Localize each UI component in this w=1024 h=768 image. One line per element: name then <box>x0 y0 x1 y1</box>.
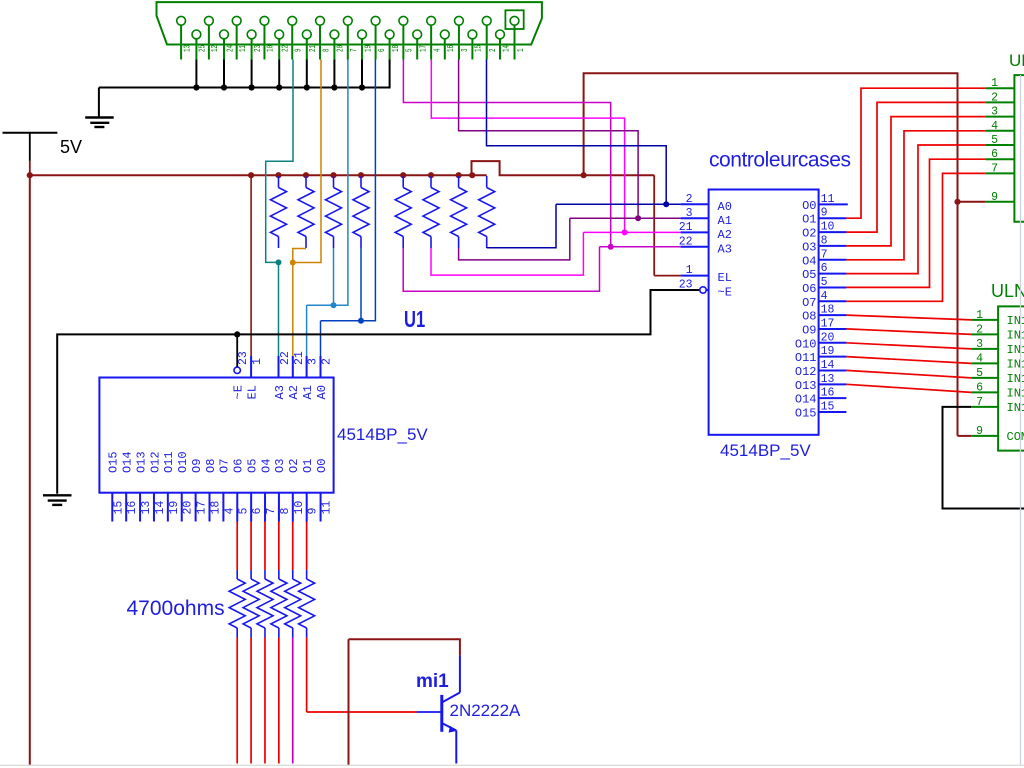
svg-text:5: 5 <box>991 134 998 147</box>
svg-text:18: 18 <box>209 501 222 515</box>
svg-text:10: 10 <box>267 45 276 52</box>
svg-text:A0: A0 <box>315 385 329 399</box>
wire O5 to U2 pin 5 (red) <box>846 145 985 274</box>
svg-text:O12: O12 <box>148 451 162 473</box>
svg-text:IN1: IN1 <box>1007 401 1024 415</box>
svg-text:2: 2 <box>976 323 983 336</box>
svg-text:15: 15 <box>821 401 835 414</box>
svg-text:23: 23 <box>254 45 263 52</box>
svg-text:6: 6 <box>821 262 828 275</box>
svg-text:3: 3 <box>991 106 998 119</box>
svg-text:7: 7 <box>976 396 983 409</box>
resistor R2 4700ohms pullup <box>298 176 314 248</box>
controleurcases pin 13 (O13) <box>795 373 847 393</box>
junction navy at A0c <box>663 201 669 207</box>
junction on ground bus at pin 24 <box>221 84 227 90</box>
wire pin 25 to ground bus <box>195 60 197 88</box>
svg-text:COM: COM <box>1007 430 1024 444</box>
svg-text:O9: O9 <box>802 323 816 337</box>
svg-text:O6: O6 <box>802 282 816 296</box>
wire ~E net black <box>57 290 700 494</box>
U1 bottom pin 19 (O11) <box>162 451 181 521</box>
svg-text:O14: O14 <box>120 451 134 473</box>
svg-text:16: 16 <box>447 45 456 52</box>
svg-text:EL: EL <box>718 271 732 285</box>
resistor R10 4700ohms output <box>243 522 259 764</box>
junction 5V bus x=403.2 <box>400 172 406 178</box>
wire net pin6-A0 (medium blue) <box>321 60 376 357</box>
junction 5V bus x=306.0 <box>303 172 309 178</box>
connector pin 4 (top row) <box>427 16 443 59</box>
connector pin 15 (bottom row) <box>468 30 484 59</box>
connector pin 6 (top row) <box>371 16 387 59</box>
wire pin 23 to ground bus <box>251 60 253 88</box>
svg-text:O5: O5 <box>245 459 259 473</box>
svg-text:6: 6 <box>251 508 264 515</box>
U1 bottom pin 9 (O1) <box>301 459 320 522</box>
svg-text:3: 3 <box>307 358 320 365</box>
wire 5V top run <box>584 73 958 436</box>
svg-text:2: 2 <box>489 48 498 52</box>
U1 top pin 2 (A0) labels <box>315 358 334 400</box>
junction orange at A2 drop <box>290 260 296 266</box>
svg-text:18: 18 <box>392 45 401 52</box>
U1 bottom pin 20 (O10) <box>176 451 195 521</box>
U1 top pin 22 (A3) labels <box>273 351 292 399</box>
wire net pin4-A2c (magenta) <box>431 60 624 233</box>
controleurcases pin 1 (EL) <box>681 264 732 285</box>
connector pin 2 (top row) <box>482 16 498 59</box>
connector pin 7 (top row) <box>343 16 359 59</box>
connector pin 20 (bottom row) <box>330 30 346 59</box>
svg-text:O3: O3 <box>273 459 287 473</box>
wire net pin9-A3 (teal) <box>266 60 293 263</box>
svg-text:16: 16 <box>126 501 139 515</box>
connector pin 24 (bottom row) <box>220 30 236 59</box>
svg-text:7: 7 <box>991 162 998 175</box>
svg-text:controleurcases: controleurcases <box>709 149 851 172</box>
svg-text:9: 9 <box>295 48 304 52</box>
ground symbol (top) <box>85 118 114 128</box>
connector pin 21 (bottom row) <box>302 30 318 59</box>
U1 top pin 21 (A2) labels <box>287 351 306 399</box>
svg-text:4: 4 <box>821 290 828 303</box>
connector pin 12 (top row) <box>204 16 220 59</box>
connector pin 17 (bottom row) <box>413 30 429 59</box>
svg-text:14: 14 <box>821 359 835 372</box>
op U1 4514BP_5V body <box>99 378 333 493</box>
svg-text:3: 3 <box>976 338 983 351</box>
junction 5V at U2 pin9 <box>954 199 960 205</box>
junction on ground bus at pin 19 <box>359 84 365 90</box>
connector pin 1 (top row) <box>510 16 526 59</box>
U1 bottom pin 8 (O3) <box>273 459 292 522</box>
junction ~E at U1 <box>234 331 240 337</box>
svg-text:IN1: IN1 <box>1007 387 1024 401</box>
wire U3 pin7 black <box>943 407 1024 509</box>
controleurcases ~E inversion bubble <box>700 287 706 293</box>
svg-text:~E: ~E <box>718 286 732 300</box>
U1 ~E inversion bubble <box>234 367 240 373</box>
resistor R11 4700ohms output <box>257 522 273 764</box>
svg-text:A2: A2 <box>718 228 732 242</box>
wire O1 to U2 pin 1 (red) <box>846 88 985 218</box>
wire O6 to U2 pin 6 (red) <box>846 159 985 287</box>
svg-text:O4: O4 <box>259 459 273 473</box>
junction 5V bus x=333.5 <box>330 172 336 178</box>
stub A0 U1 <box>320 356 322 378</box>
controleurcases pin 14 (O12) <box>795 359 847 379</box>
controleurcases pin 6 (O5) <box>802 262 846 282</box>
svg-text:O15: O15 <box>795 407 817 421</box>
wire O12 to U3 pin 5 (red) <box>846 370 971 378</box>
U1 bottom pin 10 (O2) <box>287 459 306 522</box>
svg-text:O2: O2 <box>287 459 301 473</box>
svg-text:22: 22 <box>282 45 291 52</box>
U1 bottom pin 18 (O8) <box>204 459 223 522</box>
controleurcases pin 2 (A0) <box>681 193 732 214</box>
junction on ground bus at pin 23 <box>249 84 255 90</box>
connector pin 22 (bottom row) <box>275 30 291 59</box>
junction 5V bus x=472.2 <box>469 172 475 178</box>
controleurcases pin 16 (O14) <box>795 387 847 407</box>
svg-text:13: 13 <box>183 45 192 52</box>
wire 5V to EL of U1 <box>250 175 252 377</box>
U1 bottom pin 17 (O9) <box>190 459 209 522</box>
svg-text:10: 10 <box>293 501 306 515</box>
junction medblue at R4 <box>358 318 364 324</box>
svg-text:O7: O7 <box>218 459 232 473</box>
svg-text:5V: 5V <box>60 137 82 157</box>
wire net pin8-A2 (orange) <box>293 60 321 263</box>
controleurcases pin 22 (A3) <box>679 235 732 256</box>
junction purple at A1c <box>635 215 641 221</box>
op U3 ULN lower right <box>971 281 1024 451</box>
svg-text:5: 5 <box>406 48 415 52</box>
wire U1 ~E drop <box>236 334 238 367</box>
svg-text:O6: O6 <box>232 459 246 473</box>
svg-text:O11: O11 <box>795 351 817 365</box>
svg-text:6: 6 <box>976 381 983 394</box>
svg-text:A3: A3 <box>718 242 732 256</box>
controleurcases pin 21 (A2) <box>679 221 732 242</box>
svg-text:19: 19 <box>364 45 373 52</box>
svg-text:20: 20 <box>337 45 346 52</box>
wire pin 19 to ground bus <box>361 60 363 88</box>
junction cyan at R3 <box>331 302 337 308</box>
stub A2 U1 <box>292 356 294 378</box>
svg-text:11: 11 <box>821 193 835 206</box>
svg-text:UL: UL <box>1009 51 1024 70</box>
wire O4 to U2 pin 4 (red) <box>846 131 985 260</box>
controleurcases pin 23 (~E) <box>679 279 732 300</box>
resistor R7 4700ohms pullup <box>451 176 467 248</box>
connector pin 16 (bottom row) <box>440 30 456 59</box>
svg-text:1: 1 <box>517 48 526 52</box>
svg-text:6: 6 <box>378 48 387 52</box>
U1 bottom pin 5 (O6) <box>232 459 251 522</box>
ground symbol (left lower) <box>43 495 72 505</box>
resistor R12 4700ohms output <box>271 522 287 764</box>
U1 bottom pin 16 (O14) <box>120 451 139 521</box>
junction 5V rail <box>27 172 33 178</box>
stub A1 U1 <box>306 356 308 378</box>
svg-text:2N2222A: 2N2222A <box>450 701 522 720</box>
svg-text:2: 2 <box>321 358 334 365</box>
svg-text:O1: O1 <box>802 213 816 227</box>
svg-text:23: 23 <box>237 351 250 365</box>
wire 5V to U2 pin 9 <box>958 201 986 203</box>
U1 bottom pin 14 (O12) <box>148 451 167 521</box>
connector pin 3 (top row) <box>455 16 471 59</box>
wire base mi1 (red) <box>307 711 417 713</box>
U1 bottom pin 7 (O4) <box>259 459 278 522</box>
svg-text:10: 10 <box>821 221 835 234</box>
U1 bottom pin 11 (O0) <box>315 459 334 522</box>
svg-text:A3: A3 <box>273 385 287 399</box>
svg-text:13: 13 <box>140 501 153 515</box>
controleurcases pin 3 (A1) <box>681 207 732 228</box>
connector pin 14 (bottom row) <box>496 30 512 59</box>
svg-text:19: 19 <box>821 345 835 358</box>
svg-text:O2: O2 <box>802 227 816 241</box>
svg-text:2: 2 <box>686 193 693 206</box>
svg-text:O4: O4 <box>802 254 816 268</box>
connector pin 9 (top row) <box>288 16 304 59</box>
connector pin 10 (top row) <box>260 16 276 59</box>
junction 5V bus x=361.0 <box>358 172 364 178</box>
U1 bottom pin 6 (O5) <box>245 459 264 522</box>
svg-text:14: 14 <box>154 501 167 515</box>
wire O8 to U3 pin 1 (red) <box>846 315 971 320</box>
resistor R9 4700ohms output <box>229 522 245 764</box>
svg-text:20: 20 <box>182 501 195 515</box>
controleurcases pin 9 (O1) <box>802 207 846 227</box>
resistor R8 4700ohms pullup <box>479 176 495 248</box>
resistor R14 4700ohms output <box>299 522 315 713</box>
svg-text:7: 7 <box>350 48 359 52</box>
wire pin 22 to ground bus <box>278 60 280 88</box>
junction magenta at A2c <box>622 229 628 235</box>
controleurcases pin 17 (O9) <box>802 317 846 337</box>
resistor R1 4700ohms pullup <box>271 176 287 248</box>
connector pin 18 (bottom row) <box>385 30 401 59</box>
svg-text:4: 4 <box>434 48 443 52</box>
svg-text:15: 15 <box>475 45 484 52</box>
junction 5V bus x=458.6 <box>456 172 462 178</box>
wire 5V left vertical <box>29 175 31 765</box>
wire net pin3-A1c (purple) <box>459 60 638 219</box>
svg-text:1: 1 <box>251 358 264 365</box>
connector pin 13 (top row) <box>177 16 193 59</box>
connector pin 8 (top row) <box>316 16 332 59</box>
svg-text:11: 11 <box>239 45 248 52</box>
connector pin 25 (bottom row) <box>192 30 208 59</box>
svg-text:2: 2 <box>991 91 998 104</box>
svg-text:IN1: IN1 <box>1007 358 1024 372</box>
junction 5V bus riser <box>581 172 587 178</box>
connector pin 19 (bottom row) <box>358 30 374 59</box>
U1 top pin 3 (A1) labels <box>301 358 320 400</box>
junction on ground bus at pin 25 <box>193 84 199 90</box>
wire 5V to U3 pin 9 <box>958 435 972 437</box>
resistor R6 4700ohms pullup <box>423 176 439 248</box>
svg-text:14: 14 <box>502 45 511 52</box>
svg-text:O10: O10 <box>795 337 817 351</box>
junction 5V bus x=278.5 <box>275 172 281 178</box>
junction 5V bus x=251.1 <box>248 172 254 178</box>
5V horizontal bus <box>30 161 654 175</box>
svg-text:O7: O7 <box>802 296 816 310</box>
svg-text:17: 17 <box>420 45 429 52</box>
svg-text:5: 5 <box>821 276 828 289</box>
wire collector maroon <box>349 639 460 765</box>
svg-text:4: 4 <box>991 120 998 133</box>
svg-text:6: 6 <box>991 148 998 161</box>
svg-text:22: 22 <box>679 235 693 248</box>
wire 5V to EL of controleurcases <box>654 175 680 275</box>
svg-text:5: 5 <box>237 508 250 515</box>
controleurcases pin 7 (O4) <box>802 248 846 268</box>
svg-text:O13: O13 <box>795 379 817 393</box>
svg-text:9: 9 <box>976 425 983 438</box>
wire net pin5-A3c (dark magenta) <box>403 60 610 247</box>
svg-text:3: 3 <box>686 207 693 220</box>
junction teal at R1 <box>276 259 282 265</box>
svg-text:4514BP_5V: 4514BP_5V <box>720 441 811 460</box>
svg-text:20: 20 <box>821 331 835 344</box>
svg-text:O0: O0 <box>802 199 816 213</box>
U1 bottom pin 15 (O15) <box>107 451 126 521</box>
svg-text:23: 23 <box>679 279 693 292</box>
svg-text:O14: O14 <box>795 393 817 407</box>
junction mag3 at A3c <box>608 244 614 250</box>
svg-text:A2: A2 <box>287 385 301 399</box>
wire base stub (blue) <box>417 711 441 713</box>
svg-text:25: 25 <box>199 45 208 52</box>
connector pin 1 square marker <box>505 10 523 29</box>
U1 top pin 1 (EL) labels <box>245 358 264 400</box>
svg-text:9: 9 <box>991 191 998 204</box>
svg-text:12: 12 <box>211 45 220 52</box>
wire ground bus drop <box>98 88 100 118</box>
svg-text:O15: O15 <box>107 451 121 473</box>
svg-text:15: 15 <box>112 501 125 515</box>
svg-text:IN1: IN1 <box>1007 329 1024 343</box>
svg-text:O10: O10 <box>176 451 190 473</box>
svg-text:21: 21 <box>679 221 693 234</box>
wire O9 to U3 pin 2 (red) <box>846 329 971 335</box>
svg-text:4: 4 <box>976 352 983 365</box>
junction 5V bus x=431.0 <box>428 172 434 178</box>
controleurcases pin 19 (O11) <box>795 345 847 365</box>
svg-text:4: 4 <box>223 508 236 515</box>
connector pin 5 (top row) <box>399 16 415 59</box>
svg-text:O13: O13 <box>134 451 148 473</box>
svg-text:7: 7 <box>265 508 278 515</box>
svg-text:3: 3 <box>461 48 470 52</box>
svg-text:O12: O12 <box>795 365 817 379</box>
svg-text:1: 1 <box>686 264 693 277</box>
svg-text:A0: A0 <box>718 200 732 214</box>
U1 top pin 23 (~E) labels <box>232 351 251 399</box>
wire O7 to U2 pin 7 (red) <box>846 173 985 301</box>
svg-text:IN1: IN1 <box>1007 314 1024 328</box>
resistor R4 4700ohms pullup <box>353 176 369 248</box>
svg-text:11: 11 <box>321 501 334 515</box>
resistor R3 4700ohms pullup <box>326 176 342 248</box>
svg-text:EL: EL <box>245 385 259 399</box>
svg-text:8: 8 <box>322 48 331 52</box>
svg-text:1: 1 <box>976 309 983 322</box>
wire net pin2-A0c (navy) <box>487 60 667 205</box>
svg-text:O1: O1 <box>301 459 315 473</box>
svg-text:O0: O0 <box>315 459 329 473</box>
svg-text:O8: O8 <box>802 310 816 324</box>
svg-text:9: 9 <box>821 207 828 220</box>
canvas bottom edge <box>0 764 1024 766</box>
wire O3 to U2 pin 3 (red) <box>846 117 985 246</box>
wire O13 to U3 pin 6 (red) <box>846 384 971 392</box>
resistor R5 4700ohms pullup <box>395 176 411 248</box>
svg-text:5: 5 <box>976 367 983 380</box>
svg-text:O3: O3 <box>802 240 816 254</box>
transistor Q1 mi1 2N2222A <box>442 655 460 763</box>
svg-text:17: 17 <box>821 317 835 330</box>
svg-text:21: 21 <box>293 351 306 365</box>
wire pin 21 to ground bus <box>306 60 308 88</box>
wire O11 to U3 pin 4 (red) <box>846 357 971 364</box>
svg-text:O11: O11 <box>162 451 176 473</box>
U1 bottom pin 4 (O7) <box>218 459 237 522</box>
svg-text:U1: U1 <box>404 307 425 332</box>
svg-text:7: 7 <box>821 248 828 261</box>
svg-text:O5: O5 <box>802 268 816 282</box>
op U2b ULN upper right <box>986 51 1024 222</box>
svg-text:19: 19 <box>168 501 181 515</box>
svg-text:IN1: IN1 <box>1007 372 1024 386</box>
canvas right edge <box>1020 75 1022 765</box>
svg-text:A1: A1 <box>718 214 732 228</box>
controleurcases pin 8 (O3) <box>802 234 846 254</box>
5V supply drop wire <box>29 133 31 175</box>
svg-text:16: 16 <box>821 387 835 400</box>
resistor R13 4700ohms output <box>285 522 301 764</box>
svg-text:1: 1 <box>991 77 998 90</box>
5V supply bar <box>3 132 58 134</box>
op U2 controleurcases body <box>709 190 819 435</box>
controleurcases pin 15 (O15) <box>795 401 847 421</box>
wire O10 to U3 pin 3 (red) <box>846 343 971 349</box>
svg-text:4700ohms: 4700ohms <box>127 597 225 620</box>
svg-text:8: 8 <box>279 508 292 515</box>
svg-text:4514BP_5V: 4514BP_5V <box>337 425 428 444</box>
svg-text:mi1: mi1 <box>416 671 449 692</box>
svg-text:17: 17 <box>196 501 209 515</box>
svg-text:24: 24 <box>226 45 235 52</box>
connector pin 23 (bottom row) <box>247 30 263 59</box>
junction on ground bus at pin 22 <box>276 84 282 90</box>
ground bus wire <box>99 60 390 88</box>
svg-text:O9: O9 <box>190 459 204 473</box>
svg-text:O8: O8 <box>204 459 218 473</box>
U1 bottom pin 13 (O13) <box>134 451 153 521</box>
controleurcases pin 11 (O0) <box>802 193 848 213</box>
controleurcases pin 20 (O10) <box>795 331 847 351</box>
connector pin 11 (top row) <box>232 16 248 59</box>
svg-text:22: 22 <box>279 351 292 365</box>
svg-text:~E: ~E <box>232 385 246 399</box>
